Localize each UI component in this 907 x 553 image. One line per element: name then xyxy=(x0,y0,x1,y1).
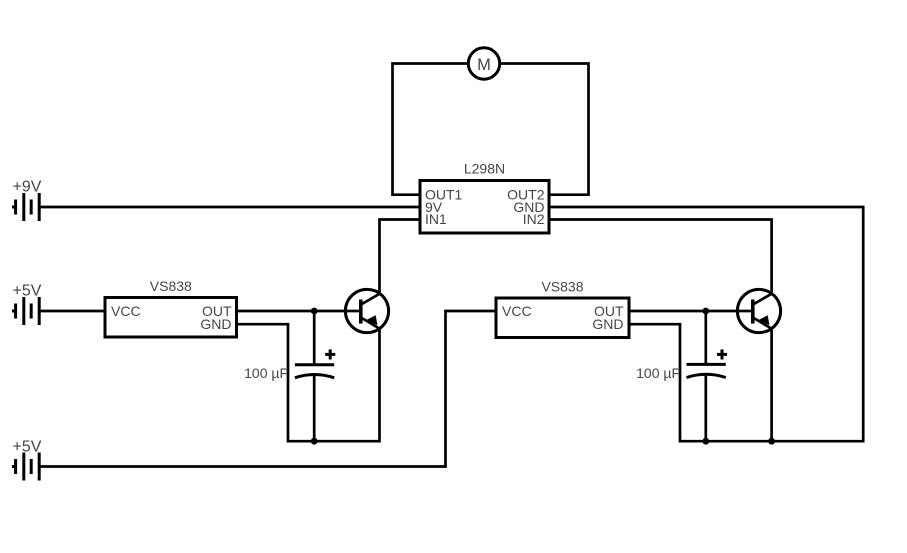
wire VS838 left OUT to Q1 base xyxy=(237,310,346,313)
wire motor to OUT2 xyxy=(500,64,589,195)
svg-text:+5V: +5V xyxy=(13,283,42,300)
svg-text:VCC: VCC xyxy=(111,303,141,319)
wire VS838 left GND to ground rail xyxy=(237,324,380,441)
svg-text:VS838: VS838 xyxy=(150,278,192,294)
svg-text:GND: GND xyxy=(592,316,623,332)
wire L298N IN2 to transistor Q2 collector xyxy=(549,220,772,294)
IC U3 VS838 (right) xyxy=(496,298,629,338)
junction node D (C2 bottom) xyxy=(702,438,709,445)
wire capacitor C1 branch xyxy=(313,311,316,441)
junction node E (Q2 emitter at rail) xyxy=(768,438,775,445)
svg-text:100 µF: 100 µF xyxy=(636,365,680,381)
junction node B (C1 bottom) xyxy=(311,438,318,445)
battery +9V xyxy=(12,193,39,221)
wire L298N IN1 to transistor Q1 collector xyxy=(380,220,421,294)
junction node C (C2 top) xyxy=(702,308,709,315)
capacitor C2 100 µF xyxy=(687,349,728,377)
motor M1 xyxy=(468,48,499,79)
capacitor C1 100 µF xyxy=(295,349,335,377)
wire VS838 right OUT to Q2 base xyxy=(629,310,737,313)
IC U1 L298N motor driver xyxy=(420,181,549,234)
battery +5V (bottom) xyxy=(12,453,39,481)
junction node A (C1 top) xyxy=(311,308,318,315)
svg-text:L298N: L298N xyxy=(464,161,505,177)
wire +5V to VS838 left VCC xyxy=(39,310,105,313)
svg-text:IN2: IN2 xyxy=(523,211,545,227)
svg-text:M: M xyxy=(477,56,491,74)
wire L298N GND to right ground rail xyxy=(549,207,863,441)
svg-text:VCC: VCC xyxy=(502,303,532,319)
wire bottom +5V to VS838 right VCC xyxy=(39,311,496,467)
svg-text:GND: GND xyxy=(200,316,231,332)
wire capacitor C2 branch xyxy=(704,311,707,441)
battery +5V (middle) xyxy=(12,297,39,325)
svg-text:+9V: +9V xyxy=(13,179,42,196)
svg-text:VS838: VS838 xyxy=(541,279,583,295)
svg-text:IN1: IN1 xyxy=(425,211,447,227)
wire Q2 emitter to ground rail xyxy=(770,328,773,441)
transistor Q2 xyxy=(737,289,780,332)
transistor Q1 xyxy=(345,289,388,332)
svg-text:+5V: +5V xyxy=(13,439,42,456)
svg-text:100 µF: 100 µF xyxy=(244,365,288,381)
IC U2 VS838 (left) xyxy=(105,298,237,338)
wire OUT1 to motor xyxy=(393,64,469,195)
wire 9V supply to L298N pin 9V xyxy=(39,206,420,209)
